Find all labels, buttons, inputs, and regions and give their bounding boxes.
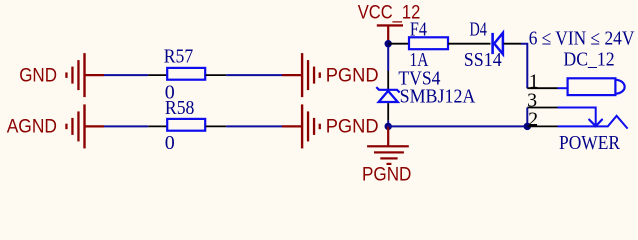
svg-text:2: 2 xyxy=(528,109,538,131)
svg-text:AGND: AGND xyxy=(7,117,57,138)
svg-text:R58: R58 xyxy=(165,97,195,119)
svg-text:0: 0 xyxy=(165,132,175,154)
svg-text:SS14: SS14 xyxy=(464,49,502,71)
svg-text:DC_12: DC_12 xyxy=(563,49,614,71)
svg-text:GND: GND xyxy=(19,65,57,86)
svg-text:PGND: PGND xyxy=(362,164,411,185)
svg-text:F4: F4 xyxy=(410,19,427,41)
svg-text:D4: D4 xyxy=(470,19,487,41)
svg-text:PGND: PGND xyxy=(326,65,379,86)
svg-text:R57: R57 xyxy=(164,46,194,68)
svg-text:6 ≤ VIN ≤ 24V: 6 ≤ VIN ≤ 24V xyxy=(529,28,635,50)
svg-text:PGND: PGND xyxy=(326,117,379,138)
svg-text:SMBJ12A: SMBJ12A xyxy=(400,85,476,107)
svg-text:POWER: POWER xyxy=(559,132,621,154)
